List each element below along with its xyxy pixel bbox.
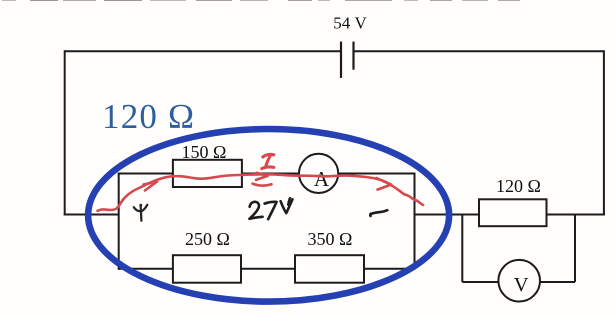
battery B1 long plate xyxy=(340,42,342,78)
svg-text:350 Ω: 350 Ω xyxy=(308,229,353,249)
blue annotation ellipse around parallel network xyxy=(88,129,449,302)
handwritten psi dot xyxy=(139,204,142,207)
ammeter A1 circle xyxy=(299,154,338,193)
resistor R3 350 ohm box xyxy=(295,255,364,283)
svg-text:V: V xyxy=(514,274,529,296)
wire right vertical xyxy=(603,50,605,215)
red arrowhead 1 xyxy=(144,182,158,185)
red annotation current path xyxy=(98,173,424,211)
resistor R2 250 ohm box xyxy=(173,255,241,283)
resistor R1 150 ohm box xyxy=(173,160,242,187)
handwritten 27V: letter V xyxy=(281,199,293,213)
wire left vertical xyxy=(64,50,66,215)
wire voltmeter branch left vertical xyxy=(461,215,463,283)
svg-text:54 V: 54 V xyxy=(333,14,367,33)
svg-text:120 Ω: 120 Ω xyxy=(102,97,195,136)
svg-text:A: A xyxy=(314,167,330,191)
handwritten minus tick xyxy=(370,210,387,216)
cropped text remnants along top edge xyxy=(2,0,520,2)
wire battery to top-right xyxy=(354,50,604,52)
handwritten psi mark xyxy=(134,205,148,221)
handwritten 27V: digit 2 xyxy=(249,198,292,219)
wire middle-left horizontal xyxy=(64,214,119,216)
wire middle-right horizontal xyxy=(414,214,605,216)
wire voltmeter branch right horizontal xyxy=(540,281,576,283)
resistor R4 120 ohm box (right) xyxy=(479,199,547,226)
red arrowhead 2 xyxy=(257,173,268,176)
handwritten 27V: digit 7 xyxy=(265,202,277,219)
wire voltmeter branch left horizontal xyxy=(462,281,499,283)
svg-text:250 Ω: 250 Ω xyxy=(185,229,230,249)
voltmeter V1 circle xyxy=(498,260,540,302)
wire inner loop bottom branch xyxy=(119,268,415,270)
svg-text:120 Ω: 120 Ω xyxy=(496,176,541,196)
wire top-left to battery xyxy=(65,50,341,52)
wire inner loop right vertical xyxy=(414,173,416,270)
wire inner loop left vertical xyxy=(118,173,120,270)
wire inner loop top branch xyxy=(119,173,415,175)
svg-text:150 Ω: 150 Ω xyxy=(182,142,227,162)
wire voltmeter branch right vertical xyxy=(574,215,576,283)
battery B1 short plate xyxy=(352,42,354,70)
red arrowhead 3 xyxy=(377,178,392,185)
red annotation current symbol I xyxy=(262,154,274,168)
